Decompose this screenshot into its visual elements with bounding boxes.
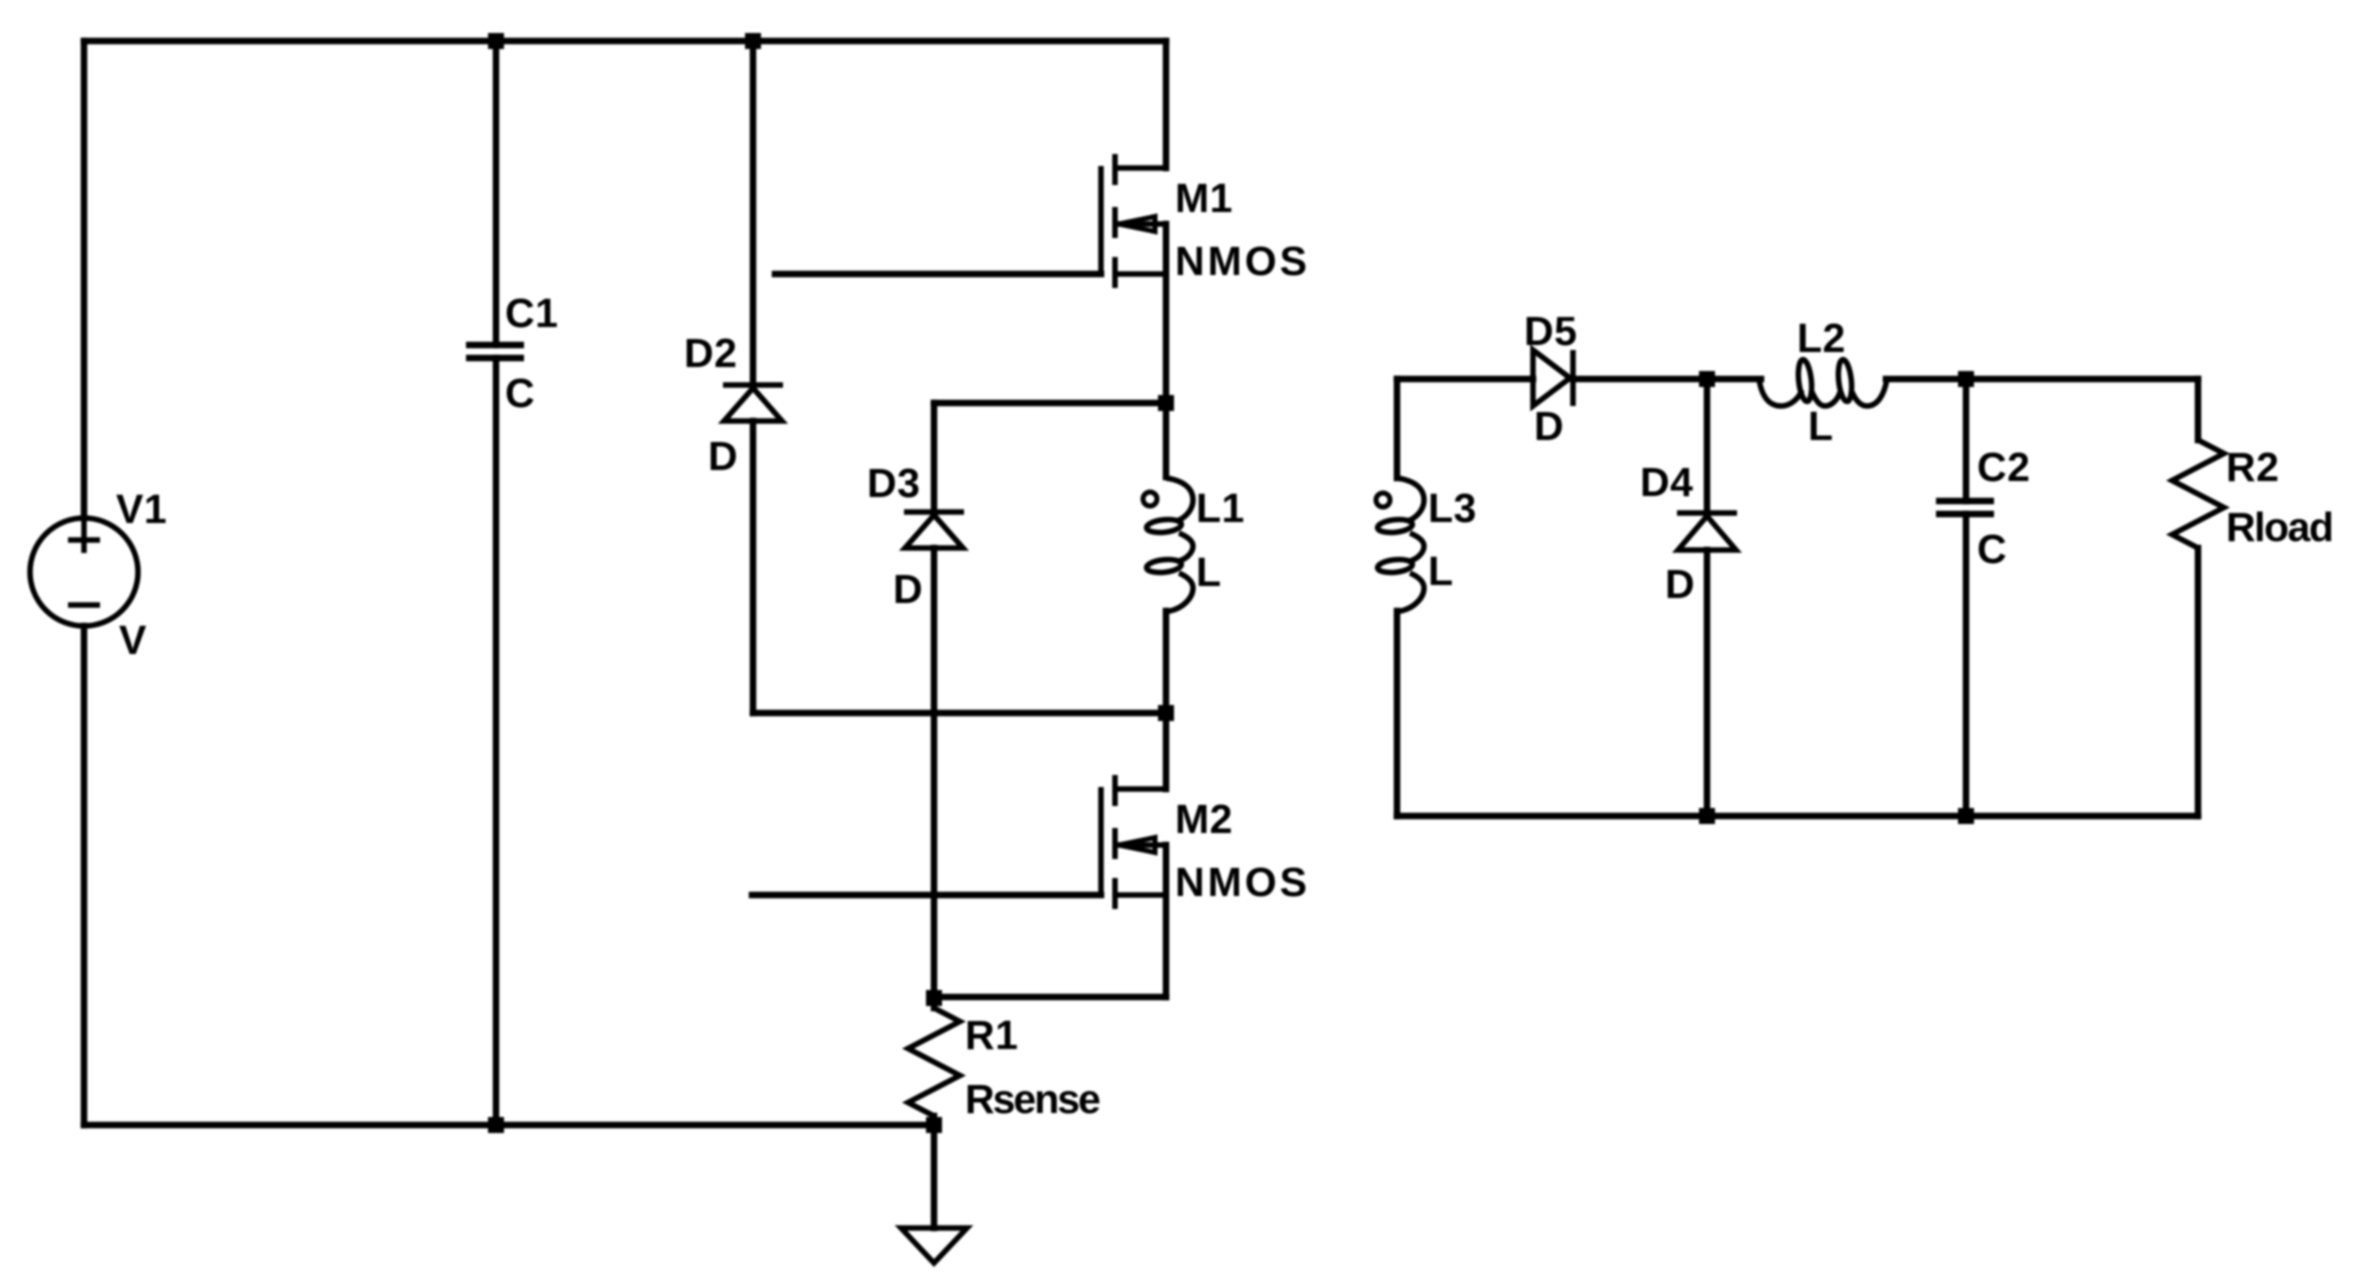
svg-text:D: D — [1534, 403, 1564, 449]
svg-text:L: L — [1428, 548, 1454, 594]
svg-text:D4: D4 — [1640, 459, 1693, 505]
svg-text:V: V — [119, 617, 147, 663]
svg-text:L: L — [1808, 403, 1834, 449]
svg-text:L1: L1 — [1196, 485, 1245, 531]
svg-text:R1: R1 — [965, 1012, 1018, 1058]
svg-text:C2: C2 — [1977, 444, 2030, 490]
svg-text:C: C — [505, 370, 535, 416]
svg-text:D5: D5 — [1524, 308, 1577, 354]
svg-text:L3: L3 — [1428, 485, 1477, 531]
svg-text:V1: V1 — [116, 486, 167, 532]
svg-text:Rsense: Rsense — [965, 1076, 1100, 1122]
svg-text:Rload: Rload — [2226, 504, 2332, 550]
svg-text:D2: D2 — [684, 330, 737, 376]
svg-text:R2: R2 — [2226, 444, 2279, 490]
svg-text:C1: C1 — [505, 290, 558, 336]
svg-text:D: D — [708, 433, 738, 479]
svg-text:D: D — [893, 566, 923, 612]
svg-text:C: C — [1977, 526, 2007, 572]
svg-text:NMOS: NMOS — [1175, 238, 1310, 284]
svg-text:M1: M1 — [1175, 175, 1233, 221]
svg-text:NMOS: NMOS — [1175, 859, 1310, 905]
svg-text:M2: M2 — [1175, 796, 1233, 842]
svg-text:L2: L2 — [1797, 315, 1846, 361]
svg-text:D3: D3 — [867, 460, 920, 506]
svg-text:L: L — [1196, 549, 1222, 595]
svg-text:D: D — [1665, 561, 1695, 607]
